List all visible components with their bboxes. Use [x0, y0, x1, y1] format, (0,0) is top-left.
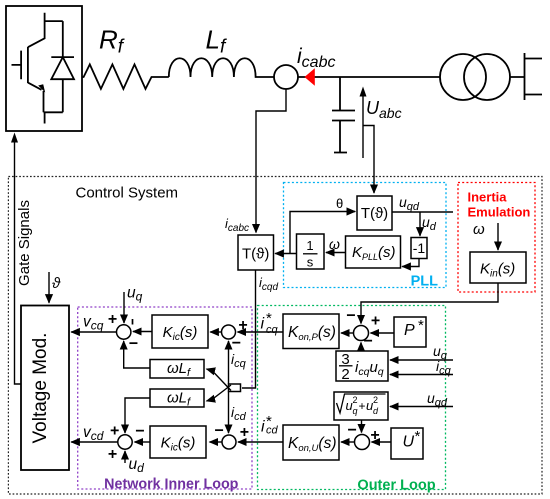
svg-text:ω: ω — [329, 236, 340, 252]
svg-text:+: + — [110, 423, 119, 440]
svg-text:−: − — [215, 423, 224, 440]
svg-text:P: P — [404, 322, 415, 339]
svg-text:+: + — [359, 399, 366, 413]
svg-text:T(ϑ): T(ϑ) — [242, 246, 269, 263]
svg-text:vcq: vcq — [83, 314, 104, 333]
svg-text:+: + — [108, 446, 117, 463]
svg-text:+: + — [370, 427, 379, 444]
svg-text:+: + — [240, 424, 249, 441]
svg-text:ωLf: ωLf — [167, 389, 191, 408]
svg-text:Rf: Rf — [99, 25, 125, 58]
svg-text:-1: -1 — [413, 240, 426, 256]
svg-text:−: − — [364, 333, 373, 350]
svg-text:q: q — [353, 406, 358, 416]
svg-text:i: i — [261, 316, 265, 333]
svg-text:−: − — [348, 422, 357, 439]
svg-text:ω: ω — [473, 221, 485, 238]
svg-text:icqd: icqd — [259, 275, 278, 293]
svg-text:cq: cq — [266, 324, 279, 336]
svg-text:+: + — [108, 311, 117, 328]
svg-text:Kic(s): Kic(s) — [163, 324, 198, 343]
svg-text:Uabc: Uabc — [366, 98, 402, 121]
svg-text:1: 1 — [306, 238, 313, 253]
svg-text:Voltage Mod.: Voltage Mod. — [30, 333, 51, 444]
svg-text:icquq: icquq — [355, 359, 384, 378]
svg-text:−: − — [346, 307, 355, 324]
svg-text:−: − — [135, 423, 144, 440]
svg-text:Network Inner Loop: Network Inner Loop — [104, 477, 239, 493]
svg-text:*: * — [418, 317, 424, 334]
svg-text:KPLL(s): KPLL(s) — [352, 244, 396, 262]
svg-text:Emulation: Emulation — [468, 205, 531, 220]
svg-text:2: 2 — [341, 366, 349, 383]
svg-text:−: − — [129, 336, 138, 353]
svg-text:Kic(s): Kic(s) — [161, 435, 196, 454]
svg-text:Kon,P(s): Kon,P(s) — [288, 324, 336, 343]
svg-text:s: s — [307, 255, 314, 270]
svg-text:U: U — [403, 434, 415, 451]
svg-text:*: * — [415, 428, 421, 445]
svg-text:uqd: uqd — [399, 194, 420, 213]
svg-text:ud: ud — [422, 214, 437, 233]
svg-text:icabc: icabc — [297, 45, 335, 71]
svg-text:cd: cd — [266, 425, 279, 437]
svg-text:−: − — [232, 335, 241, 352]
svg-text:i: i — [261, 419, 265, 436]
svg-text:icq: icq — [231, 351, 247, 370]
svg-text:ϑ: ϑ — [52, 275, 61, 292]
svg-text:+: + — [371, 313, 380, 330]
svg-text:Kin(s): Kin(s) — [480, 261, 515, 280]
svg-text:icabc: icabc — [225, 216, 249, 234]
svg-text:ωLf: ωLf — [167, 360, 191, 379]
svg-text:Lf: Lf — [206, 25, 227, 58]
svg-text:uq: uq — [127, 285, 143, 304]
svg-text:icd: icd — [231, 404, 247, 423]
svg-text:2: 2 — [353, 395, 358, 405]
svg-text:Control System: Control System — [76, 185, 179, 202]
svg-text:Outer Loop: Outer Loop — [357, 478, 435, 494]
svg-text:vcd: vcd — [83, 424, 104, 443]
svg-text:d: d — [373, 406, 379, 416]
svg-text:θ: θ — [336, 196, 343, 211]
svg-text:Inertia: Inertia — [468, 190, 508, 205]
svg-text:Gate Signals: Gate Signals — [16, 200, 33, 286]
svg-text:Kon,U(s): Kon,U(s) — [288, 435, 337, 454]
svg-text:PLL: PLL — [411, 274, 439, 290]
svg-text:2: 2 — [373, 395, 378, 405]
svg-text:ud: ud — [129, 456, 145, 475]
svg-text:+: + — [238, 317, 247, 334]
svg-text:T(ϑ): T(ϑ) — [361, 205, 388, 222]
